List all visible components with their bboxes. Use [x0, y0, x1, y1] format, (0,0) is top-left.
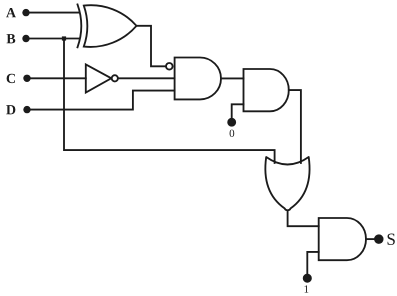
wire AND2 to OR gate [289, 90, 301, 163]
input label C [7, 74, 15, 83]
wire AND1 to AND2 [221, 77, 244, 79]
XOR gate U1 body [84, 5, 137, 47]
OR gate U5 (pointing down) [265, 157, 309, 210]
wire B branch to OR gate [64, 39, 275, 164]
node B terminal [22, 35, 29, 42]
node S terminal [375, 235, 383, 243]
node C terminal [23, 75, 30, 82]
inverted-input bubble on AND1 [166, 63, 173, 70]
AND gate U3 [175, 58, 221, 100]
AND gate U6 [319, 218, 366, 260]
input label B [7, 34, 16, 43]
AND gate U4 [244, 69, 289, 111]
input label A [6, 8, 16, 17]
value label 0 [230, 130, 235, 137]
wire NOT to AND1 [118, 77, 175, 79]
node A terminal [22, 9, 29, 16]
node constant-0 terminal [228, 119, 235, 126]
input label D [6, 105, 15, 114]
XOR gate U1 input arc [78, 4, 82, 47]
wire D to AND1 [28, 91, 175, 110]
wire XOR to AND1 bubble [137, 26, 166, 67]
wire B to XOR [27, 38, 79, 40]
wire constant 1 to AND3 [307, 252, 318, 275]
node constant-1 terminal [304, 275, 311, 282]
wire constant 0 to AND2 [232, 104, 244, 119]
node D terminal [23, 106, 30, 113]
output label S [388, 234, 395, 245]
NOT gate U2 [86, 64, 112, 92]
value label 1 [305, 285, 309, 292]
wire A to XOR [27, 12, 79, 14]
wire AND3 to output S [366, 238, 375, 240]
wire OR to AND3 [288, 211, 319, 227]
NOT gate output bubble [112, 75, 118, 81]
wire C to NOT gate [28, 77, 86, 79]
junction on B [62, 36, 66, 40]
